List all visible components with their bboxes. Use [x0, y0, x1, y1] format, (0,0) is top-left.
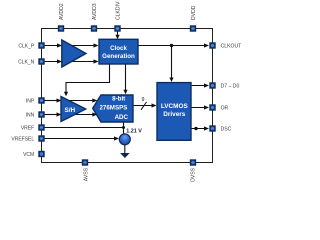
svg-text:DVDD: DVDD: [191, 5, 197, 20]
wire ADC to voltage reference: [123, 122, 125, 134]
svg-text:CLKDIV: CLKDIV: [116, 1, 122, 20]
pin INN: [26, 111, 45, 118]
pin DSC: [209, 125, 231, 132]
wire clock generation to ADC: [123, 64, 127, 94]
wire VREF: [43, 127, 124, 129]
wire LVCMOS to DSC: [191, 126, 209, 130]
block S/H: [61, 97, 86, 122]
svg-text:INP: INP: [26, 98, 35, 104]
block 8-bit 276MSPS ADC: [93, 95, 133, 122]
svg-text:CLK_P: CLK_P: [18, 43, 35, 49]
wire voltage reference to ground: [124, 145, 126, 154]
junction on CLKOUT wire: [170, 44, 173, 47]
ground: [120, 153, 130, 158]
pin AVDD3: [91, 3, 98, 31]
wire LVCMOS to D7-D0: [191, 83, 209, 87]
pin CLK_P: [18, 42, 44, 49]
svg-text:AVSS: AVSS: [84, 167, 90, 181]
wire INP into S/H: [43, 98, 62, 102]
wire VREFSEL into voltage reference: [43, 136, 119, 140]
block Clock Generation: [99, 39, 138, 64]
bus ADC to LVCMOS drivers: [133, 103, 157, 107]
wire clock generation to S/H: [64, 64, 110, 96]
svg-text:ADC: ADC: [115, 114, 129, 121]
pin CLKDIV: [114, 1, 121, 32]
svg-text:INN: INN: [26, 112, 35, 118]
junction VREF / reference: [122, 126, 125, 129]
svg-text:276MSPS: 276MSPS: [99, 105, 127, 112]
svg-text:AVDD2: AVDD2: [59, 3, 65, 20]
pin INP: [26, 97, 45, 104]
svg-text:DSC: DSC: [221, 126, 232, 132]
wire S/H to ADC lower: [66, 112, 97, 116]
svg-text:9: 9: [142, 97, 145, 103]
wire CLKDIV into clock generation: [115, 31, 119, 39]
svg-text:Drivers: Drivers: [163, 111, 185, 118]
pin AVSS: [82, 159, 90, 181]
wire INN into S/H: [43, 112, 62, 116]
svg-text:8-bit: 8-bit: [112, 96, 125, 103]
svg-text:CLK_N: CLK_N: [18, 59, 35, 65]
pin CLKOUT: [209, 42, 241, 49]
wire S/H to ADC upper: [66, 98, 97, 102]
pin D7 - D0: [209, 82, 239, 89]
svg-text:VREFSEL: VREFSEL: [11, 136, 34, 142]
pin OVSS: [190, 159, 197, 182]
svg-text:OR: OR: [221, 105, 229, 111]
wire CLK_P to clock generation: [43, 43, 99, 47]
svg-text:CLKOUT: CLKOUT: [221, 43, 242, 49]
wire CLK_N to clock generation: [43, 59, 99, 63]
block LVCMOS Drivers: [157, 83, 191, 141]
svg-text:D7 – D0: D7 – D0: [221, 83, 240, 89]
pin OR: [209, 104, 228, 111]
wire clock to LVCMOS drivers: [169, 46, 173, 83]
clock input buffer: [62, 40, 86, 67]
pin AVDD2: [58, 3, 65, 31]
svg-text:Generation: Generation: [102, 53, 135, 60]
svg-text:AVDD3: AVDD3: [92, 3, 98, 20]
bus width slash: [141, 102, 147, 110]
pin VCM: [23, 151, 45, 158]
svg-text:VCM: VCM: [23, 152, 34, 158]
svg-text:VREF: VREF: [21, 125, 34, 131]
svg-text:1.21 V: 1.21 V: [126, 128, 142, 134]
wire clock generation to CLKOUT: [138, 43, 209, 47]
pin VREF: [21, 124, 45, 131]
pin VREFSEL: [11, 135, 44, 142]
svg-text:OVSS: OVSS: [191, 167, 197, 182]
svg-text:S/H: S/H: [64, 107, 75, 114]
junction on DSC wire: [194, 127, 197, 130]
pin DVDD: [190, 5, 197, 31]
svg-text:LVCMOS: LVCMOS: [161, 103, 189, 110]
svg-text:Clock: Clock: [110, 45, 127, 52]
pin CLK_N: [18, 58, 45, 65]
wire LVCMOS to OR: [191, 105, 209, 109]
chip boundary: [42, 29, 213, 163]
voltage reference 1.21 V: [119, 128, 142, 145]
